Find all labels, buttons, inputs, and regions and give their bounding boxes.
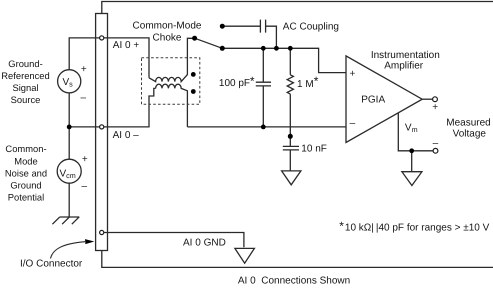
svg-text:Measured: Measured [446, 117, 490, 128]
label: Ground-Referenced Signal Source [1, 58, 49, 105]
label: Common-Mode Noise and Ground Potential [5, 143, 47, 202]
ground: earth ground under Vcm [52, 217, 79, 224]
wire: Vs bottom to common node A [68, 93, 70, 127]
junction: 100 pF bottom [261, 125, 266, 130]
svg-text:–: – [350, 118, 356, 129]
svg-text:Vm: Vm [405, 122, 418, 134]
capacitor C3: 10 nF [283, 146, 299, 150]
wire: Vs top to AI 0 + terminal to choke [69, 38, 149, 78]
svg-text:AI 0 GND: AI 0 GND [183, 237, 226, 248]
svg-text:AI 0 Connections Shown: AI 0 Connections Shown [238, 276, 350, 287]
svg-text:Mode: Mode [14, 155, 37, 166]
svg-text:+: + [432, 102, 438, 113]
svg-text:+: + [82, 154, 88, 165]
svg-text:I/O Connector: I/O Connector [20, 258, 83, 269]
terminal: AI 0 GND [100, 230, 104, 234]
svg-text:1 M: 1 M [297, 79, 314, 90]
switch SW1 pivot [192, 36, 197, 41]
switch SW1 contact AC [220, 24, 225, 29]
op-amp U1: PGIA instrumentation amplifier [346, 56, 422, 143]
svg-text:Signal: Signal [12, 82, 38, 93]
junction: 1 M top [288, 46, 293, 51]
svg-text:–: – [81, 92, 87, 103]
svg-text:Voltage: Voltage [453, 129, 487, 140]
svg-text:+: + [81, 64, 87, 75]
wire: node A to AI 0 - terminal to choke bottom winding [69, 88, 155, 127]
wire: PGIA output to + terminal [422, 98, 432, 100]
voltage source Vcm circle [57, 159, 81, 183]
junction: 10 nF branch [288, 134, 293, 139]
svg-text:Common-Mode: Common-Mode [133, 20, 202, 31]
wire: device outline bottom border [102, 250, 493, 267]
wire: C1 right plate to main node [266, 26, 277, 48]
arrow: I/O connector pointer curve [50, 242, 85, 259]
junction: 100 pF top [261, 46, 266, 51]
wire: AC contact to capacitor C1 [224, 25, 260, 27]
svg-text:*: * [339, 219, 344, 233]
wire: 100 pF top stub [262, 48, 264, 82]
svg-text:Noise and: Noise and [5, 167, 47, 178]
ground: under measured voltage [402, 172, 422, 186]
terminal: output - [433, 148, 438, 153]
wire: PGIA reference to - terminal and ground [398, 113, 433, 151]
svg-text:AI 0 +: AI 0 + [113, 40, 140, 51]
terminal: AI 0 - [100, 125, 104, 129]
contact dot: choke lower [191, 89, 196, 94]
svg-text:AC Coupling: AC Coupling [283, 22, 339, 33]
svg-text:Choke: Choke [153, 32, 182, 43]
svg-text:*: * [314, 74, 319, 88]
arrowhead: I/O connector pointer [85, 239, 94, 244]
svg-text:10 nF: 10 nF [301, 143, 327, 154]
wire: switch blade SW1 [195, 38, 223, 48]
wire: Vcm bottom to earth ground [68, 183, 70, 216]
voltage source Vs circle [58, 70, 81, 93]
capacitor C2: 100 pF [256, 82, 271, 86]
svg-text:*: * [250, 74, 255, 88]
wire: 100 pF bottom stub [262, 86, 264, 127]
inductor L1b: choke bottom winding [156, 84, 188, 127]
switch SW1 contact DC [220, 46, 225, 51]
inductor L1a: choke top winding [149, 38, 193, 81]
I/O connector strip [96, 13, 108, 250]
capacitor C1: AC coupling [260, 20, 265, 33]
wire: 1 M bottom through AI0- line to 10 nF [289, 94, 291, 146]
svg-text:–: – [433, 138, 439, 149]
wire: main positive signal line to PGIA + input [222, 48, 346, 72]
terminal: output + [433, 97, 438, 102]
wire: node A down to Vcm top [68, 127, 70, 159]
contact dot: choke upper [191, 72, 196, 77]
svg-text:PGIA: PGIA [361, 95, 385, 106]
ground: AI 0 GND [235, 248, 255, 263]
svg-text:Vcm: Vcm [59, 168, 75, 180]
svg-text:Ground: Ground [10, 179, 41, 190]
svg-text:AI 0 –: AI 0 – [113, 130, 140, 141]
svg-text:Vs: Vs [63, 77, 74, 89]
junction: AC coupling return [274, 46, 279, 51]
svg-text:Referenced: Referenced [1, 70, 49, 81]
wire: device outline top border [102, 1, 493, 13]
wire: AI 0 GND terminal to ground [104, 232, 244, 247]
svg-text:Amplifier: Amplifier [384, 61, 424, 72]
junction: Vm ground node [409, 148, 414, 153]
wire: main negative signal line to PGIA - input [187, 126, 346, 128]
resistor R1: 1 M [287, 75, 293, 94]
svg-text:–: – [81, 181, 87, 192]
open terminal circles [100, 36, 438, 235]
svg-text:Source: Source [11, 94, 41, 105]
dashed box: common-mode choke outline [142, 58, 200, 105]
ground: analog ground under 10 nF [282, 171, 301, 185]
svg-text:Potential: Potential [8, 192, 44, 203]
svg-text:100 pF: 100 pF [219, 78, 250, 89]
svg-text:10 kΩ| |40 pF for ranges > ±10: 10 kΩ| |40 pF for ranges > ±10 V [345, 223, 490, 234]
wire: 1 M resistor top stub [289, 48, 291, 75]
terminal: AI 0 + [100, 36, 104, 40]
node A: Vs/Vcm junction [67, 124, 72, 129]
svg-text:Common-: Common- [5, 143, 46, 154]
svg-text:Ground-: Ground- [8, 58, 42, 69]
wire: Vm node to ground [411, 151, 413, 172]
svg-text:+: + [349, 68, 355, 79]
wire: 10 nF to ground [289, 150, 291, 171]
